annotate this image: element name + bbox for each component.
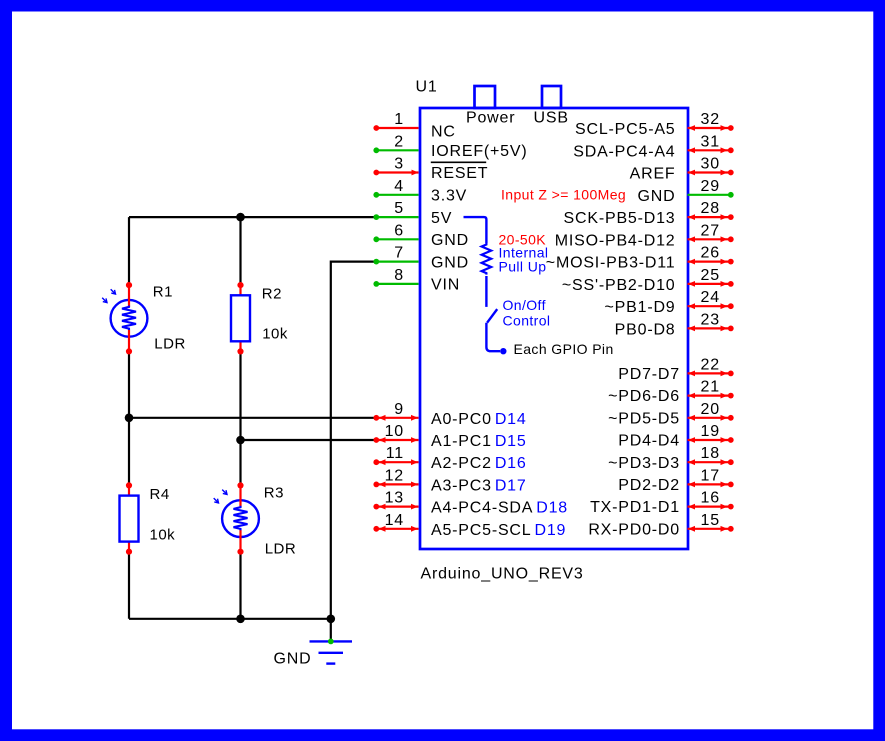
label U1 bbox=[416, 79, 438, 96]
label 20-50K bbox=[499, 231, 547, 247]
label On/Off Control bbox=[503, 297, 551, 328]
svg-text:TX-PD1-D1: TX-PD1-D1 bbox=[590, 499, 680, 516]
svg-text:25: 25 bbox=[701, 267, 720, 284]
svg-text:6: 6 bbox=[394, 222, 404, 239]
wire node A: R1/R4 mid-point to pin 9 bbox=[129, 417, 376, 419]
resistor R4 10k bbox=[120, 482, 176, 555]
pin 27 MISO-PB4-D12 bbox=[555, 222, 734, 249]
svg-text:1: 1 bbox=[394, 111, 404, 128]
svg-text:USB: USB bbox=[534, 110, 569, 127]
svg-text:28: 28 bbox=[701, 200, 720, 217]
svg-text:5: 5 bbox=[394, 200, 404, 217]
svg-text:9: 9 bbox=[394, 401, 404, 418]
pin 6 GND bbox=[373, 222, 469, 249]
svg-text:On/Off: On/Off bbox=[503, 297, 546, 313]
svg-text:Power: Power bbox=[466, 110, 515, 127]
label Internal Pull Up bbox=[499, 245, 549, 275]
svg-text:7: 7 bbox=[394, 245, 404, 262]
svg-text:18: 18 bbox=[701, 445, 720, 462]
junction node B on middle column bbox=[236, 436, 245, 445]
svg-text:~PD3-D3: ~PD3-D3 bbox=[608, 455, 680, 472]
label Input Z >= 100Meg bbox=[501, 187, 626, 203]
resistor R2 10k bbox=[231, 282, 288, 355]
pin 24 ~PB1-D9 bbox=[605, 289, 734, 316]
pin 17 PD2-D2 bbox=[618, 467, 733, 494]
svg-text:A4-PC4-SDAD18: A4-PC4-SDAD18 bbox=[431, 500, 568, 517]
svg-text:31: 31 bbox=[701, 133, 720, 150]
pin 25 ~SS'-PB2-D10 bbox=[562, 267, 734, 294]
op-amp U1 (Arduino UNO IC body) bbox=[420, 86, 688, 549]
svg-text:NC: NC bbox=[431, 123, 456, 140]
svg-text:29: 29 bbox=[701, 178, 720, 195]
svg-text:SDA-PC4-A4: SDA-PC4-A4 bbox=[573, 143, 675, 160]
svg-text:GND: GND bbox=[638, 188, 676, 205]
svg-text:LDR: LDR bbox=[265, 541, 297, 558]
svg-text:A3-PC3D17: A3-PC3D17 bbox=[431, 477, 527, 494]
wire left vertical R4 bottom to ground rail bbox=[128, 553, 130, 619]
label Arduino_UNO_REV3 bbox=[421, 566, 584, 583]
junction ground rail at middle column bbox=[236, 615, 245, 624]
svg-text:21: 21 bbox=[701, 379, 720, 396]
wire left vertical R1 bottom to node A bbox=[128, 352, 130, 418]
svg-text:GND: GND bbox=[274, 651, 312, 668]
pin 13 A4-PC4-SDA D18 bbox=[373, 490, 568, 517]
svg-text:A1-PC1D15: A1-PC1D15 bbox=[431, 433, 527, 450]
svg-text:PB0-D8: PB0-D8 bbox=[615, 321, 676, 338]
svg-text:RX-PD0-D0: RX-PD0-D0 bbox=[588, 521, 680, 538]
svg-text:16: 16 bbox=[701, 490, 720, 507]
junction on 5V rail at middle column bbox=[236, 213, 245, 222]
svg-text:2: 2 bbox=[394, 133, 404, 150]
pin 10 A1-PC1 D15 bbox=[373, 423, 526, 450]
label USB connector bbox=[534, 110, 569, 127]
pin 28 SCK-PB5-D13 bbox=[564, 200, 734, 227]
svg-text:10k: 10k bbox=[150, 527, 176, 544]
pin 3 RESET bbox=[373, 156, 488, 183]
svg-text:R3: R3 bbox=[264, 485, 284, 502]
svg-text:PD7-D7: PD7-D7 bbox=[618, 366, 680, 383]
svg-text:12: 12 bbox=[385, 467, 404, 484]
svg-text:SCK-PB5-D13: SCK-PB5-D13 bbox=[564, 210, 676, 227]
label Each GPIO Pin bbox=[514, 341, 614, 357]
svg-text:23: 23 bbox=[701, 311, 720, 328]
pin 20 ~PD5-D5 bbox=[608, 401, 734, 428]
junction ground rail at GND symbol bbox=[327, 615, 336, 624]
svg-text:Arduino_UNO_REV3: Arduino_UNO_REV3 bbox=[421, 566, 584, 583]
svg-text:~PD6-D6: ~PD6-D6 bbox=[608, 388, 680, 405]
pin 18 ~PD3-D3 bbox=[608, 445, 734, 472]
resistor R1 (LDR) bbox=[102, 282, 186, 355]
svg-text:IOREF(+5V): IOREF(+5V) bbox=[431, 143, 527, 160]
svg-text:10k: 10k bbox=[262, 326, 288, 343]
svg-text:Each GPIO Pin: Each GPIO Pin bbox=[514, 341, 614, 357]
pin 23 PB0-D8 bbox=[615, 311, 734, 338]
wire GND net from pin 7 left then down bbox=[331, 262, 376, 619]
pin 26 ~MOSI-PB3-D11 bbox=[546, 245, 734, 272]
svg-text:11: 11 bbox=[386, 445, 404, 462]
ground bbox=[274, 619, 353, 668]
svg-text:15: 15 bbox=[701, 512, 720, 529]
svg-text:AREF: AREF bbox=[630, 166, 676, 183]
svg-text:22: 22 bbox=[701, 356, 720, 373]
wire ground rail horizontal bbox=[129, 618, 331, 620]
pin 15 RX-PD0-D0 bbox=[588, 512, 733, 539]
svg-text:SCL-PC5-A5: SCL-PC5-A5 bbox=[575, 121, 675, 138]
wire left vertical from 5V rail down to R1 bbox=[128, 217, 130, 285]
svg-text:PD4-D4: PD4-D4 bbox=[618, 433, 680, 450]
pin 16 TX-PD1-D1 bbox=[590, 490, 734, 517]
svg-text:PD2-D2: PD2-D2 bbox=[618, 477, 680, 494]
svg-text:GND: GND bbox=[431, 254, 469, 271]
pin 22 PD7-D7 bbox=[618, 356, 733, 383]
svg-text:10: 10 bbox=[385, 423, 404, 440]
svg-text:27: 27 bbox=[701, 222, 720, 239]
wire 5V net: top horizontal from R1/R2 top to pin 5 bbox=[129, 216, 376, 218]
svg-text:R2: R2 bbox=[262, 286, 282, 303]
wire node B: R2/R3 mid-point to pin 10 bbox=[241, 439, 377, 441]
svg-text:VIN: VIN bbox=[431, 277, 460, 294]
resistor R3 (LDR) bbox=[214, 482, 297, 557]
svg-text:MISO-PB4-D12: MISO-PB4-D12 bbox=[555, 232, 676, 249]
svg-text:Pull Up: Pull Up bbox=[499, 258, 547, 274]
svg-text:~PB1-D9: ~PB1-D9 bbox=[605, 299, 676, 316]
svg-text:19: 19 bbox=[701, 423, 720, 440]
svg-text:R1: R1 bbox=[153, 283, 173, 300]
svg-text:Control: Control bbox=[503, 312, 551, 328]
pin 29 GND bbox=[638, 178, 734, 205]
svg-text:GND: GND bbox=[431, 232, 469, 249]
svg-text:A0-PC0D14: A0-PC0D14 bbox=[431, 411, 527, 428]
pin 12 A3-PC3 D17 bbox=[373, 467, 526, 494]
pin 2 IOREF(+5V) bbox=[373, 133, 527, 160]
internal pull-up resistor and switch (inside U1) bbox=[464, 217, 507, 354]
svg-text:32: 32 bbox=[701, 111, 720, 128]
pin 11 A2-PC2 D16 bbox=[373, 445, 526, 472]
wire middle vertical R2 bottom to node B bbox=[239, 352, 241, 441]
wire middle vertical R3 bottom to ground rail bbox=[239, 553, 241, 619]
pin 32 SCL-PC5-A5 bbox=[575, 111, 734, 138]
svg-text:17: 17 bbox=[701, 467, 720, 484]
svg-text:~MOSI-PB3-D11: ~MOSI-PB3-D11 bbox=[546, 255, 676, 272]
svg-text:14: 14 bbox=[385, 512, 404, 529]
svg-text:5V: 5V bbox=[431, 210, 452, 227]
wire middle vertical node B down to R3 bbox=[239, 440, 241, 485]
svg-text:RESET: RESET bbox=[431, 165, 488, 182]
svg-text:R4: R4 bbox=[150, 486, 170, 503]
svg-text:30: 30 bbox=[701, 156, 720, 173]
svg-text:8: 8 bbox=[394, 267, 404, 284]
pin 31 SDA-PC4-A4 bbox=[573, 133, 733, 160]
wire middle vertical from 5V rail down to R2 bbox=[239, 217, 241, 285]
svg-text:26: 26 bbox=[701, 245, 720, 262]
pin 21 ~PD6-D6 bbox=[608, 379, 734, 406]
pin 8 VIN bbox=[373, 267, 460, 294]
pin 9 A0-PC0 D14 bbox=[373, 401, 526, 428]
svg-text:3.3V: 3.3V bbox=[431, 188, 467, 205]
svg-text:~SS'-PB2-D10: ~SS'-PB2-D10 bbox=[562, 277, 676, 294]
pin 7 GND bbox=[373, 245, 469, 272]
svg-text:13: 13 bbox=[385, 490, 404, 507]
pin 1 NC bbox=[373, 111, 455, 140]
junction node A on left column bbox=[125, 414, 134, 423]
pin 19 PD4-D4 bbox=[618, 423, 733, 450]
pin 5 5V bbox=[373, 200, 452, 227]
pin 30 AREF bbox=[630, 156, 734, 183]
svg-text:A5-PC5-SCLD19: A5-PC5-SCLD19 bbox=[431, 522, 566, 539]
svg-text:A2-PC2D16: A2-PC2D16 bbox=[431, 455, 527, 472]
wire left vertical node A down to R4 bbox=[128, 418, 130, 485]
svg-text:LDR: LDR bbox=[154, 336, 186, 353]
svg-text:Input Z >= 100Meg: Input Z >= 100Meg bbox=[501, 187, 626, 203]
svg-text:3: 3 bbox=[394, 156, 404, 173]
pin 14 A5-PC5-SCL D19 bbox=[373, 512, 566, 539]
svg-text:4: 4 bbox=[394, 178, 404, 195]
svg-text:24: 24 bbox=[701, 289, 720, 306]
label Power connector bbox=[466, 110, 515, 127]
svg-text:U1: U1 bbox=[416, 79, 438, 96]
svg-text:20: 20 bbox=[701, 401, 720, 418]
svg-text:~PD5-D5: ~PD5-D5 bbox=[608, 410, 680, 427]
pin 4 3.3V bbox=[373, 178, 467, 205]
